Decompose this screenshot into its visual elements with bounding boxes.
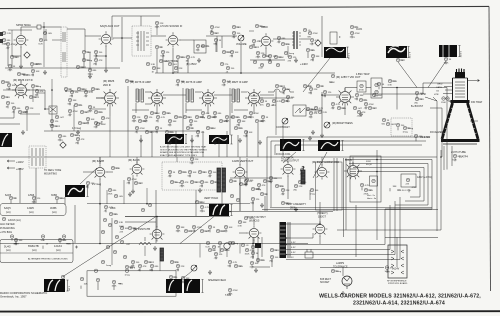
junction	[252, 243, 254, 245]
(M) callout	[155, 21, 159, 25]
tube location strip box 1	[0, 204, 66, 216]
wire	[392, 80, 395, 82]
wire	[34, 63, 37, 65]
comp C23	[68, 109, 72, 113]
wire	[64, 197, 66, 205]
comp 8	[208, 248, 212, 252]
det comps 4	[309, 111, 313, 115]
comps above det 6	[323, 90, 327, 94]
strip2 stems	[12, 239, 64, 241]
svg-text:6AQ5: 6AQ5	[4, 206, 11, 210]
wire	[140, 16, 142, 26]
wire	[219, 245, 221, 253]
power area left wires	[253, 237, 262, 263]
wire	[389, 188, 391, 191]
comp vh2	[236, 198, 240, 202]
vert osc tube V13	[130, 161, 145, 176]
wire	[174, 181, 177, 183]
component	[386, 122, 390, 126]
component	[284, 51, 288, 55]
resistor R14	[249, 45, 253, 49]
comp C25	[86, 117, 90, 121]
svg-text:.0022: .0022	[195, 182, 201, 184]
strip2 plus mark	[75, 246, 78, 249]
wire	[285, 100, 288, 102]
cathode resistor R8	[161, 50, 165, 54]
svg-text:470K: 470K	[250, 250, 256, 252]
comp C17	[29, 95, 33, 99]
module comp 4	[198, 170, 202, 174]
svg-text:(LA): (LA)	[29, 211, 34, 214]
wire	[69, 102, 71, 105]
tube chart callout 6	[62, 235, 66, 239]
svg-text:10%: 10%	[174, 72, 178, 74]
component	[244, 216, 248, 220]
tube chart callout 5	[41, 235, 45, 239]
wire	[7, 46, 9, 49]
svg-text:39K: 39K	[316, 56, 320, 58]
comp right of chart	[104, 205, 108, 209]
wire	[151, 131, 153, 157]
capacitor C1	[8, 64, 12, 68]
interlock plug	[305, 252, 313, 258]
svg-text:.0022: .0022	[149, 262, 155, 264]
wire	[320, 85, 323, 87]
comp M circle	[228, 288, 232, 292]
video detector diode box	[293, 105, 306, 116]
comp C21	[84, 90, 88, 94]
wire	[132, 175, 134, 189]
audio output tube V1	[14, 32, 29, 47]
svg-text:SPKR 500Ω: SPKR 500Ω	[16, 23, 31, 27]
sync comp col 2	[108, 223, 112, 227]
wire	[89, 52, 91, 70]
svg-text:4.7K: 4.7K	[89, 92, 94, 94]
wire	[106, 190, 108, 204]
wire	[11, 59, 13, 68]
svg-text:10K: 10K	[249, 132, 253, 134]
IF STAGE A : transformer T4	[136, 89, 143, 102]
zigzag resistor drawn	[139, 242, 151, 245]
sync comps row 7	[224, 225, 228, 229]
ground	[294, 58, 298, 63]
anode lead	[470, 120, 478, 122]
wire	[321, 92, 323, 133]
AFC comp grid 10	[251, 197, 255, 201]
svg-text:2.2K: 2.2K	[170, 132, 175, 134]
wire	[416, 95, 418, 98]
wire	[285, 43, 288, 45]
comp far R20	[350, 31, 354, 35]
svg-text:10%: 10%	[131, 266, 135, 268]
wire	[85, 94, 87, 97]
conv slug	[406, 178, 410, 182]
svg-text:1meg: 1meg	[260, 26, 266, 28]
comp row a3	[218, 241, 222, 245]
wire	[129, 266, 132, 268]
width coil pictorial	[318, 140, 340, 151]
wire plate V1 to IF can	[21, 27, 61, 32]
wire	[257, 123, 259, 157]
junction	[65, 90, 67, 92]
wire	[189, 174, 191, 177]
wire	[14, 56, 17, 58]
wire	[132, 227, 135, 229]
wire	[253, 266, 270, 268]
wire	[138, 182, 141, 184]
module comp 1	[168, 170, 172, 174]
wire	[3, 89, 23, 91]
svg-text:47K: 47K	[262, 185, 266, 187]
wire	[86, 59, 89, 61]
pw comp 5	[270, 248, 274, 252]
svg-text:22K: 22K	[160, 23, 164, 25]
wire	[74, 134, 77, 136]
component	[357, 110, 361, 114]
component	[43, 31, 47, 35]
stage B comps r10	[196, 130, 200, 134]
svg-text:(M) 3BZ6: (M) 3BZ6	[103, 79, 115, 83]
wire	[157, 119, 159, 122]
AFC tube V16	[281, 161, 296, 176]
svg-text:ION TRAP: ION TRAP	[471, 101, 483, 104]
svg-text:10K: 10K	[255, 263, 259, 265]
svg-text:10K: 10K	[44, 40, 48, 42]
wire	[199, 244, 201, 258]
inner slug	[372, 179, 376, 183]
trap slug 3	[375, 90, 379, 94]
stage B comps r8	[225, 115, 229, 119]
svg-text:47K: 47K	[81, 139, 85, 141]
bus y243	[0, 243, 308, 245]
wire	[372, 107, 375, 109]
wire	[209, 229, 211, 232]
det comps 1	[281, 99, 285, 103]
wire	[13, 197, 16, 199]
heater bus risers	[385, 197, 400, 260]
svg-text:470K: 470K	[369, 104, 375, 106]
sync comps row 2	[184, 229, 188, 233]
svg-text:1meg: 1meg	[200, 211, 206, 213]
svg-text:2.2K: 2.2K	[261, 260, 266, 262]
svg-text:470K: 470K	[254, 113, 260, 115]
junction	[396, 87, 398, 89]
wire	[125, 221, 156, 223]
svg-text:470K: 470K	[11, 44, 17, 46]
IF STAGE C : transformer T6	[232, 89, 239, 102]
ion trap magnet circle 2	[446, 97, 450, 101]
stage A comps r4	[150, 111, 154, 115]
svg-text:3.3K: 3.3K	[130, 81, 135, 83]
pictorial 2 bracket	[231, 135, 233, 144]
sync comps row 3	[192, 225, 196, 229]
wire	[258, 187, 260, 190]
wire	[235, 116, 238, 118]
comp C24	[88, 105, 92, 109]
svg-text:560K: 560K	[330, 82, 336, 84]
svg-text:1meg: 1meg	[289, 53, 295, 55]
wire	[279, 85, 282, 87]
wire	[230, 177, 282, 179]
wire	[365, 106, 367, 109]
wire	[74, 205, 76, 243]
comp C27	[76, 137, 80, 141]
wire	[236, 26, 239, 28]
svg-text:10K: 10K	[193, 172, 197, 174]
wire	[307, 85, 310, 87]
junction	[146, 203, 148, 205]
wire	[275, 110, 277, 135]
component	[120, 226, 124, 230]
svg-text:(H RECT): (H RECT)	[317, 212, 328, 215]
lead from yoke down-left	[63, 217, 156, 277]
stage B comps r2	[189, 119, 193, 123]
audio cluster comp 5	[150, 264, 154, 268]
svg-text:50 C.P.S.: 50 C.P.S.	[402, 190, 411, 192]
funnel hatch right	[467, 108, 477, 134]
lead from width pictorial	[313, 152, 327, 178]
wire	[332, 106, 334, 109]
wire	[26, 110, 28, 131]
svg-text:.0022: .0022	[391, 124, 397, 126]
wire	[59, 138, 61, 141]
svg-text:3.3K: 3.3K	[41, 240, 46, 242]
wire	[109, 116, 111, 157]
v18 comps 2	[364, 188, 368, 192]
AFC comp grid 2	[245, 178, 249, 182]
wire	[262, 119, 264, 122]
stage C comps r8	[244, 130, 248, 134]
brightness pot	[324, 122, 330, 128]
wire	[335, 270, 338, 272]
component	[228, 241, 232, 245]
wire	[191, 161, 193, 164]
wire	[312, 58, 314, 60]
svg-text:(M): (M)	[311, 60, 314, 62]
wire	[81, 88, 84, 90]
svg-text:10%: 10%	[168, 125, 172, 127]
vert out tube V14	[233, 164, 248, 179]
wire	[19, 168, 21, 203]
svg-text:1meg: 1meg	[175, 182, 181, 184]
wire	[212, 249, 215, 251]
svg-text:4.5MC TRAP: 4.5MC TRAP	[356, 73, 370, 76]
svg-text:3.3K: 3.3K	[175, 262, 180, 264]
svg-text:470K: 470K	[73, 111, 79, 113]
svg-text:39K: 39K	[173, 121, 177, 123]
wire	[282, 192, 284, 195]
svg-text:4.7K: 4.7K	[109, 207, 114, 209]
svg-text:.0022: .0022	[280, 86, 286, 88]
small tube 6AX4	[224, 243, 230, 249]
sound output tube V2 6AQ5	[99, 31, 114, 46]
wire	[59, 197, 62, 199]
wire	[148, 261, 151, 263]
svg-text:8.2K: 8.2K	[192, 231, 197, 233]
wire	[190, 127, 193, 129]
wire y237 right	[385, 236, 438, 238]
audio cluster comp 2	[125, 265, 129, 269]
pw comp 6	[270, 255, 274, 259]
wire	[310, 108, 313, 110]
wire	[4, 43, 8, 45]
svg-text:39K: 39K	[186, 278, 190, 280]
wire	[378, 86, 380, 89]
wire	[187, 59, 189, 62]
wire	[180, 56, 183, 58]
junction	[43, 26, 45, 28]
wire	[9, 68, 11, 71]
vh comp 2	[200, 205, 204, 209]
wire	[87, 203, 250, 205]
component	[353, 106, 357, 110]
sound take-off shield box (dashed)	[132, 26, 151, 56]
wire	[176, 157, 178, 162]
stage A comps r3	[144, 115, 148, 119]
comp column C8	[210, 25, 214, 29]
comp R30	[78, 121, 82, 125]
svg-text:1meg: 1meg	[350, 37, 356, 39]
comp 2	[109, 212, 113, 216]
wire V2 down	[84, 46, 106, 68]
rungs	[136, 33, 149, 45]
stage A ground	[139, 138, 143, 143]
svg-text:6.3V: 6.3V	[291, 247, 296, 249]
tube chart callout 2	[32, 196, 36, 200]
v11 wires	[322, 95, 345, 115]
wire	[191, 135, 193, 157]
comp on bus 2	[58, 238, 62, 242]
svg-text:MOUNTING: MOUNTING	[44, 172, 57, 175]
wire	[132, 264, 134, 267]
stage A comps r5	[156, 115, 160, 119]
junction	[51, 89, 53, 91]
svg-text:4.7K: 4.7K	[277, 101, 282, 103]
wire	[156, 49, 158, 73]
ground	[311, 130, 315, 135]
wire	[186, 109, 202, 111]
svg-text:FOCALIZER: FOCALIZER	[430, 131, 443, 134]
comp row C13	[268, 54, 272, 58]
stage C label circle	[222, 79, 226, 83]
svg-text:5932: 5932	[366, 161, 372, 163]
comps above det 1	[275, 84, 279, 88]
anode lead arrow	[468, 80, 480, 82]
svg-text:150K: 150K	[176, 231, 181, 233]
pilot lamp 2	[385, 266, 389, 270]
wire	[42, 246, 44, 249]
component	[114, 194, 118, 198]
svg-text:VOLUME: VOLUME	[236, 43, 247, 46]
comp R13	[232, 31, 236, 35]
capacitor C4	[82, 58, 86, 62]
wire	[129, 80, 132, 82]
wire	[133, 119, 135, 122]
resistor R15	[277, 36, 281, 40]
wire	[95, 62, 97, 65]
wire	[73, 105, 75, 131]
stage B comps r3	[195, 115, 199, 119]
bus line y73	[155, 72, 335, 74]
svg-text:560K: 560K	[60, 198, 66, 200]
svg-text:47K: 47K	[419, 136, 423, 138]
CRT funnel right side	[468, 103, 479, 139]
junction	[321, 94, 323, 96]
component	[314, 106, 318, 110]
AFC comp grid 5	[263, 179, 267, 183]
wire inside box	[98, 282, 114, 290]
svg-text:47K: 47K	[70, 96, 74, 98]
wire	[13, 110, 15, 113]
wire	[239, 244, 241, 254]
wire	[226, 119, 228, 122]
rail y131	[44, 130, 200, 132]
wire	[13, 110, 15, 118]
lead from focus coil	[283, 152, 296, 163]
riser to bus	[173, 42, 241, 73]
trap box 1	[357, 81, 366, 92]
component	[272, 99, 276, 103]
IF stage B tube V9	[199, 89, 217, 106]
wire	[123, 180, 125, 204]
svg-text:TOLERANCE: TOLERANCE	[333, 265, 348, 268]
svg-text:.0022: .0022	[254, 47, 260, 49]
wire	[341, 107, 344, 109]
component	[168, 62, 172, 66]
IF stage C tube V10	[245, 89, 263, 106]
svg-text:4.7K: 4.7K	[233, 262, 238, 264]
svg-text:470K: 470K	[132, 179, 138, 181]
svg-text:1meg: 1meg	[249, 117, 255, 119]
wire	[415, 138, 417, 141]
comp C19	[25, 106, 29, 110]
rectifier socket tube	[342, 276, 352, 289]
stage C comps r3	[243, 115, 247, 119]
ground	[153, 246, 157, 251]
junction	[156, 216, 158, 218]
svg-text:22K: 22K	[251, 257, 255, 259]
comp C15	[311, 54, 315, 58]
wire	[301, 172, 303, 180]
peaking coil wire	[268, 89, 294, 92]
svg-text:6.3V: 6.3V	[291, 242, 296, 244]
wire	[5, 96, 8, 98]
focalizer pictorial (photo)	[439, 45, 457, 57]
ground under V2	[104, 68, 108, 73]
svg-text:1meg: 1meg	[75, 135, 81, 137]
focus coil pictorial	[280, 139, 301, 151]
wire	[210, 127, 213, 129]
junction	[99, 243, 101, 245]
v13 comp 1	[127, 177, 131, 181]
stage B comps r6	[213, 111, 217, 115]
wire	[149, 131, 152, 133]
svg-text:1meg: 1meg	[336, 271, 342, 273]
takeoff transformer T2	[138, 31, 144, 51]
wire	[226, 249, 228, 257]
verticals x334 x337	[334, 158, 337, 211]
svg-text:4.7K: 4.7K	[161, 117, 166, 119]
svg-text:22K: 22K	[86, 123, 90, 125]
svg-text:22K: 22K	[200, 186, 204, 188]
CRT label circle	[453, 154, 457, 158]
svg-text:4.7K: 4.7K	[191, 57, 196, 59]
sync comps row 6	[216, 229, 220, 233]
speaker terminal circle	[61, 275, 65, 279]
wire	[221, 190, 223, 204]
svg-text:3-9/32: 3-9/32	[459, 51, 461, 58]
wire	[363, 99, 366, 101]
